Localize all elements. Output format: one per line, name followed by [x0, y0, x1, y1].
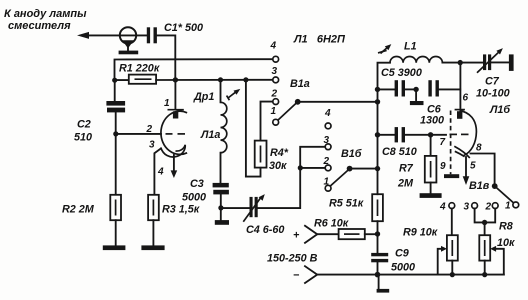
- resistor R7 2M: [397, 135, 436, 190]
- tube L1a envelope: [161, 111, 187, 154]
- svg-text:10к: 10к: [497, 237, 515, 249]
- svg-text:3: 3: [464, 202, 470, 213]
- svg-text:L1: L1: [404, 41, 417, 53]
- svg-text:6: 6: [463, 93, 469, 104]
- tube L1a cathode: [149, 140, 185, 157]
- capacitor C4 6-60 trimmer: [243, 194, 284, 236]
- svg-text:В1в: В1в: [469, 180, 490, 192]
- node: B1v pivot: [492, 183, 498, 189]
- svg-text:5000: 5000: [391, 262, 415, 274]
- svg-text:R1 220к: R1 220к: [119, 63, 160, 75]
- wire: contacts 3 and 2 join to R8: [475, 209, 496, 236]
- svg-text:1: 1: [164, 98, 170, 109]
- svg-text:С3: С3: [190, 178, 204, 190]
- node: R4 branch junction: [243, 77, 248, 82]
- capacitor C8 510: [378, 127, 447, 158]
- wire: C1 to R1 right node: [157, 35, 175, 80]
- wire: B1a contact 2 down to R4: [261, 102, 273, 141]
- svg-text:R3 1,5к: R3 1,5к: [162, 204, 200, 216]
- wire: cathode pin 3 down to R3: [154, 149, 160, 195]
- svg-text:смесителя: смесителя: [8, 20, 71, 32]
- resistor R6 10k: [314, 218, 365, 240]
- wire: R8 bottom to rail: [484, 261, 486, 275]
- node: right column tap for B1b: [375, 166, 380, 171]
- svg-text:С9: С9: [395, 248, 409, 260]
- wire: branch line from top row: [245, 80, 247, 177]
- tube L1b shield pin 9: [440, 111, 459, 179]
- svg-text:9: 9: [440, 161, 446, 172]
- tube L1b heater pin 5 arrow: [463, 157, 476, 185]
- wire: R5 bottom to C9: [377, 221, 379, 253]
- svg-text:30к: 30к: [269, 160, 287, 172]
- tube L1a anode lead pin 1: [164, 80, 184, 119]
- svg-text:1: 1: [271, 106, 277, 117]
- svg-text:R9 10к: R9 10к: [403, 227, 438, 239]
- node: anode column junction: [173, 77, 178, 82]
- svg-text:2М: 2М: [397, 178, 414, 190]
- svg-text:1: 1: [324, 177, 330, 188]
- wire: grid wire to tube L1a: [116, 133, 161, 135]
- switch B1v lever: [495, 186, 514, 203]
- switch B1a lever: [278, 102, 298, 120]
- potentiometer R8 10k: [479, 221, 515, 261]
- tube L1a grid dashes pin 2: [146, 124, 186, 135]
- resistor R1 220k: [115, 63, 160, 84]
- svg-text:3: 3: [149, 140, 155, 151]
- inductor Dr1 (choke): [193, 80, 227, 183]
- svg-text:2: 2: [485, 202, 492, 213]
- node: input note text: [4, 8, 87, 32]
- wire: junction to ground bar: [220, 208, 222, 220]
- svg-text:С1* 500: С1* 500: [164, 22, 203, 34]
- tube L1b anode lead pin 6: [455, 63, 469, 119]
- svg-text:5: 5: [470, 161, 476, 172]
- wire: cathode pin 8 to switch B1v: [471, 154, 495, 186]
- node: C9 rail junction: [375, 272, 381, 278]
- tube L1b grid dashes pin 7: [440, 134, 469, 148]
- wire: C9 to rail: [377, 262, 379, 274]
- svg-text:3: 3: [324, 135, 330, 146]
- svg-text:+: +: [293, 230, 300, 242]
- svg-text:С4 6-60: С4 6-60: [246, 224, 284, 236]
- wire: R4 bottom to branch line: [246, 168, 261, 177]
- svg-text:Л1б: Л1б: [489, 104, 510, 116]
- potentiometer R9 10k: [403, 227, 458, 261]
- resistor R4* 30k: [255, 141, 289, 172]
- svg-text:R6 10к: R6 10к: [314, 218, 349, 230]
- wire: R3 to ground: [152, 220, 154, 245]
- svg-text:7: 7: [440, 137, 446, 148]
- tube L1b envelope: [460, 111, 477, 156]
- node: tank taps: [375, 87, 380, 92]
- svg-text:Л1 6Н2П: Л1 6Н2П: [293, 34, 346, 46]
- capacitor C9 5000: [371, 248, 415, 274]
- node: grid junction: [113, 131, 118, 136]
- wire: ground rail: [317, 274, 504, 276]
- terminal: minus input: [293, 266, 317, 283]
- svg-text:4: 4: [157, 167, 164, 178]
- node: Dr1 top junction: [218, 77, 223, 82]
- resistor R3 1.5k: [148, 195, 200, 220]
- node: R9 rail junction: [450, 272, 455, 277]
- wire: B1b pivot to right column: [350, 168, 378, 170]
- wire: C2 to grid node: [115, 112, 117, 133]
- switch B1b lever: [330, 169, 349, 186]
- node: B1b contact 2 tap: [298, 165, 303, 170]
- wire: C4 to switch B1b column: [258, 147, 326, 208]
- wire: R2 to ground: [115, 220, 117, 245]
- svg-text:5000: 5000: [182, 192, 206, 204]
- svg-text:10-100: 10-100: [476, 88, 510, 100]
- wire: R6 to R5 bottom node: [365, 233, 378, 235]
- svg-text:Др1: Др1: [193, 91, 214, 103]
- svg-text:1300: 1300: [420, 115, 444, 127]
- capacitor C5 3900: [378, 67, 422, 97]
- svg-text:Л1а: Л1а: [200, 129, 220, 141]
- inductor L1: [390, 41, 442, 63]
- svg-text:3: 3: [272, 66, 278, 77]
- capacitor C6 1300: [420, 80, 460, 126]
- resistor R2 2M: [62, 195, 121, 220]
- svg-text:1: 1: [505, 201, 511, 212]
- ground: main chassis ground: [377, 275, 390, 293]
- svg-text:2: 2: [323, 156, 330, 167]
- node: R1 left junction: [112, 78, 117, 83]
- node: R7 top junction: [428, 132, 433, 137]
- wire: R7 to ground: [430, 183, 432, 194]
- node: C3 bottom junction: [218, 205, 223, 210]
- ground: under C3: [215, 220, 229, 225]
- wire: junction down to C2: [114, 80, 116, 101]
- node: L1 tuning arrow: [378, 44, 391, 53]
- ground: under R3: [141, 245, 164, 250]
- svg-text:В1б: В1б: [341, 148, 362, 160]
- node: B1b pivot: [347, 166, 353, 172]
- node: R5/R6/C9 junction: [375, 231, 380, 236]
- svg-text:510: 510: [74, 132, 92, 144]
- resistor R5 51k: [329, 194, 383, 221]
- wire: R9 bottom to rail: [451, 261, 453, 275]
- ground: C7 right side plate: [509, 54, 514, 71]
- wire: C3 node to C4: [221, 207, 250, 209]
- svg-text:4: 4: [439, 202, 446, 213]
- terminal: +150-250V input: [267, 226, 339, 265]
- wire: tank left column: [378, 63, 391, 195]
- wire: B1a pivot to right column: [298, 101, 378, 103]
- wire: switch B1a contact 4 to left column: [115, 59, 273, 80]
- tube L1a heater pin 4 arrow: [157, 155, 177, 178]
- switch B1b contacts: [323, 108, 362, 191]
- svg-text:2: 2: [271, 89, 278, 100]
- node: R9 wiper arm: [438, 246, 447, 275]
- node: B1a pivot: [295, 99, 301, 105]
- svg-text:К аноду лампы: К аноду лампы: [4, 8, 87, 20]
- svg-text:8: 8: [476, 143, 482, 154]
- wire: C3 to junction: [220, 194, 222, 208]
- wire: R1 to grid row with taps: [156, 79, 273, 81]
- node: anode top junction: [458, 60, 463, 65]
- svg-text:В1а: В1а: [290, 78, 310, 90]
- switch B1a contacts: [270, 41, 310, 126]
- svg-text:R4*: R4*: [270, 147, 289, 159]
- capacitor C2 510: [74, 101, 125, 144]
- switch B1v contacts: [439, 180, 519, 213]
- svg-text:R7: R7: [399, 163, 414, 175]
- ground: under R7: [420, 193, 442, 198]
- capacitor C7 10-100: [476, 48, 510, 99]
- svg-text:С8 510: С8 510: [382, 146, 417, 158]
- capacitor C3 5000: [182, 178, 229, 204]
- node: C5/C6 midpoint: [413, 87, 418, 92]
- node: Dr1 tuning arrow: [227, 89, 241, 100]
- svg-text:150-250 В: 150-250 В: [267, 253, 318, 265]
- svg-text:R5 51к: R5 51к: [329, 198, 364, 210]
- wire: contact 4 down to R9: [451, 209, 453, 236]
- connector XS1 (coax jack): [119, 27, 139, 54]
- tube L1b cathode: [454, 143, 482, 159]
- svg-text:С5 3900: С5 3900: [381, 67, 422, 79]
- svg-text:−: −: [293, 270, 300, 282]
- wire: L1 to C7 with anode tap: [442, 62, 483, 64]
- capacitor C1: [147, 22, 203, 43]
- svg-text:4: 4: [270, 41, 277, 52]
- wire: grid node down to R2: [115, 134, 117, 195]
- svg-text:2: 2: [146, 124, 153, 135]
- ground: under R2: [103, 245, 126, 250]
- wire: tap to contact 2: [300, 167, 325, 169]
- svg-text:С7: С7: [485, 76, 500, 88]
- svg-text:4: 4: [324, 108, 331, 119]
- svg-text:R2 2М: R2 2М: [62, 204, 95, 216]
- node: R8 wiper arm: [490, 246, 504, 275]
- wire: output lead with arrow to mixer anode: [77, 32, 147, 39]
- svg-text:С2: С2: [77, 119, 91, 131]
- ground: C5/C6 midpoint stub: [410, 89, 424, 105]
- node: R8 rail junction: [482, 272, 487, 277]
- svg-text:R8: R8: [499, 221, 513, 233]
